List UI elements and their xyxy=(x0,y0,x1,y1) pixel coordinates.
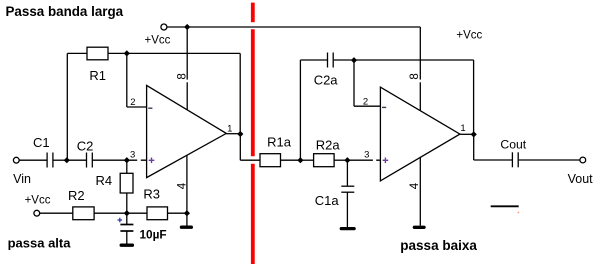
wire C2 to node C xyxy=(93,159,127,161)
Vcc rail down to op2 pin 8 xyxy=(419,27,421,111)
wire node H to R2a xyxy=(300,159,313,161)
wire R4 down to node D xyxy=(126,193,128,213)
wire R1a to node H xyxy=(281,159,301,161)
wire feedback top xyxy=(127,52,240,54)
node K junction (op2 out) xyxy=(471,131,477,137)
resistor R4 xyxy=(120,173,133,193)
svg-text:Vout: Vout xyxy=(568,172,594,186)
svg-text:3: 3 xyxy=(130,149,135,160)
node H junction (R1a-R2a-C2a) xyxy=(297,157,303,163)
ground op2 pin4 xyxy=(414,226,424,229)
white clip gap on pin3 wire op2 xyxy=(373,159,376,162)
svg-text:4: 4 xyxy=(409,182,421,189)
cap lower lead xyxy=(126,231,128,244)
svg-text:C1: C1 xyxy=(33,135,50,150)
feedback wire op2 down xyxy=(473,60,475,134)
svg-text:3: 3 xyxy=(364,149,369,160)
node I junction (C2a-feedback-pin2) xyxy=(351,57,357,63)
svg-text:+Vcc: +Vcc xyxy=(145,34,171,46)
svg-text:Vin: Vin xyxy=(13,172,31,186)
svg-text:R2: R2 xyxy=(68,188,85,203)
wire node B down xyxy=(126,53,128,107)
node J junction (R2a-C1a-pin3) xyxy=(344,157,350,163)
wire node A up to R1 xyxy=(66,53,68,160)
ground below cap xyxy=(121,244,132,247)
node G junction (op1 out) xyxy=(237,131,243,137)
svg-text:R3: R3 xyxy=(143,186,160,201)
svg-text:Cout: Cout xyxy=(500,138,526,152)
svg-text:8: 8 xyxy=(176,73,188,79)
svg-text:passa alta: passa alta xyxy=(8,236,72,251)
svg-text:C2: C2 xyxy=(77,138,94,153)
svg-text:1: 1 xyxy=(460,123,465,134)
wire node C to pin 3 xyxy=(127,159,147,161)
svg-text:R2a: R2a xyxy=(316,138,341,153)
svg-text:R1a: R1a xyxy=(267,135,292,150)
stray orange dot xyxy=(518,212,519,213)
wire to pin 2 op2 xyxy=(354,105,380,107)
electrolytic cap top plate xyxy=(120,224,133,226)
terminal +Vcc lower xyxy=(34,210,40,216)
node B junction (R1-feedback-pin2) xyxy=(124,50,130,56)
op-amp U2 triangle xyxy=(380,87,460,181)
C1a lower lead xyxy=(346,192,348,227)
wire R1 right to node B xyxy=(108,52,127,54)
electrolytic cap bottom plate xyxy=(120,230,133,232)
svg-text:Passa banda larga: Passa banda larga xyxy=(6,4,124,19)
resistor R1a xyxy=(260,154,281,167)
wire Vcc terminal to node F xyxy=(167,26,187,28)
pin 8 wire op1 xyxy=(186,27,188,110)
wire R2 to node D xyxy=(94,212,127,214)
svg-text:+Vcc: +Vcc xyxy=(456,29,482,41)
electrolytic cap lead xyxy=(126,213,128,224)
svg-text:1: 1 xyxy=(227,123,232,134)
pin 4 wire op1 xyxy=(186,155,188,226)
node A junction (C1-C2-R1) xyxy=(64,157,70,163)
op-amp U1 triangle xyxy=(147,85,227,177)
node D junction (R2-R4-cap-R3) xyxy=(124,210,130,216)
wire A to C2 xyxy=(67,159,86,161)
wire feedback down to output xyxy=(239,53,241,134)
terminal Vout xyxy=(580,157,586,163)
cap polarity plus xyxy=(118,218,123,223)
wire C2a to node I xyxy=(334,59,354,61)
wire node I down xyxy=(353,60,355,106)
wire to Cout xyxy=(474,159,512,161)
wire op1 output xyxy=(226,133,240,135)
wire op2 output xyxy=(460,133,474,135)
white clip gap pin8 op1 xyxy=(186,80,189,83)
op-amp U2 plus xyxy=(383,158,389,164)
op-amp U1 plus xyxy=(149,158,155,164)
resistor R1 xyxy=(87,47,108,60)
wire node C down to R4 xyxy=(126,160,128,173)
wire terminal to R2 xyxy=(40,212,73,214)
node F junction (Vcc rail) xyxy=(184,24,190,30)
wire op1 out down xyxy=(239,134,241,160)
wire to pin 2 xyxy=(127,106,147,108)
wire R2a to node J xyxy=(334,159,347,161)
wire C1 to node A xyxy=(53,159,66,161)
svg-text:4: 4 xyxy=(176,182,188,189)
wire node H up xyxy=(299,60,301,160)
wire node J to pin 3 op2 xyxy=(347,159,380,161)
wire to C2a xyxy=(300,59,327,61)
ground below C1a xyxy=(341,227,354,230)
svg-text:2: 2 xyxy=(363,96,368,107)
wire Vin to C1 xyxy=(19,159,46,161)
op-amp U2 minus xyxy=(382,106,386,108)
svg-text:C1a: C1a xyxy=(315,193,340,208)
capacitor C1a xyxy=(341,186,354,192)
op-amp U1 minus xyxy=(148,107,152,109)
stray line segment xyxy=(491,205,519,207)
svg-text:R1: R1 xyxy=(89,68,106,83)
wire R3 to node E xyxy=(168,212,187,214)
capacitor C1 xyxy=(47,153,53,168)
wire Cout to Vout terminal xyxy=(519,159,580,161)
pin 4 wire op2 xyxy=(419,158,421,226)
capacitor C2 xyxy=(87,153,93,168)
svg-text:passa baixa: passa baixa xyxy=(400,238,477,253)
red divider line xyxy=(251,3,255,264)
feedback wire op2 top xyxy=(354,59,474,61)
wire node J down to C1a xyxy=(346,160,348,185)
Vcc rail wire to right xyxy=(187,26,420,28)
svg-text:10µF: 10µF xyxy=(140,227,167,241)
svg-text:2: 2 xyxy=(130,97,135,108)
resistor R2 xyxy=(73,207,94,220)
svg-text:8: 8 xyxy=(409,73,421,79)
svg-text:R4: R4 xyxy=(96,173,113,188)
resistor R2a xyxy=(314,154,335,167)
wire node D to R3 xyxy=(127,212,147,214)
terminal Vin xyxy=(13,157,19,163)
wire to R1 left xyxy=(67,52,87,54)
white clip gap on pin3 wire xyxy=(137,159,141,162)
ground op1 pin4 xyxy=(182,225,192,228)
terminal +Vcc top xyxy=(161,24,167,30)
wire to R1a xyxy=(240,159,260,161)
capacitor Cout xyxy=(512,152,518,167)
node E junction (R3-pin4-gnd) xyxy=(184,210,190,216)
white clip gap pin8 op2 xyxy=(419,80,422,83)
node C junction (C2-R4-pin3) xyxy=(124,157,130,163)
wire op2 out down xyxy=(473,134,475,160)
capacitor C2a xyxy=(328,53,334,68)
resistor R3 xyxy=(147,207,168,220)
svg-text:+Vcc: +Vcc xyxy=(25,195,51,207)
svg-text:C2a: C2a xyxy=(314,72,339,87)
